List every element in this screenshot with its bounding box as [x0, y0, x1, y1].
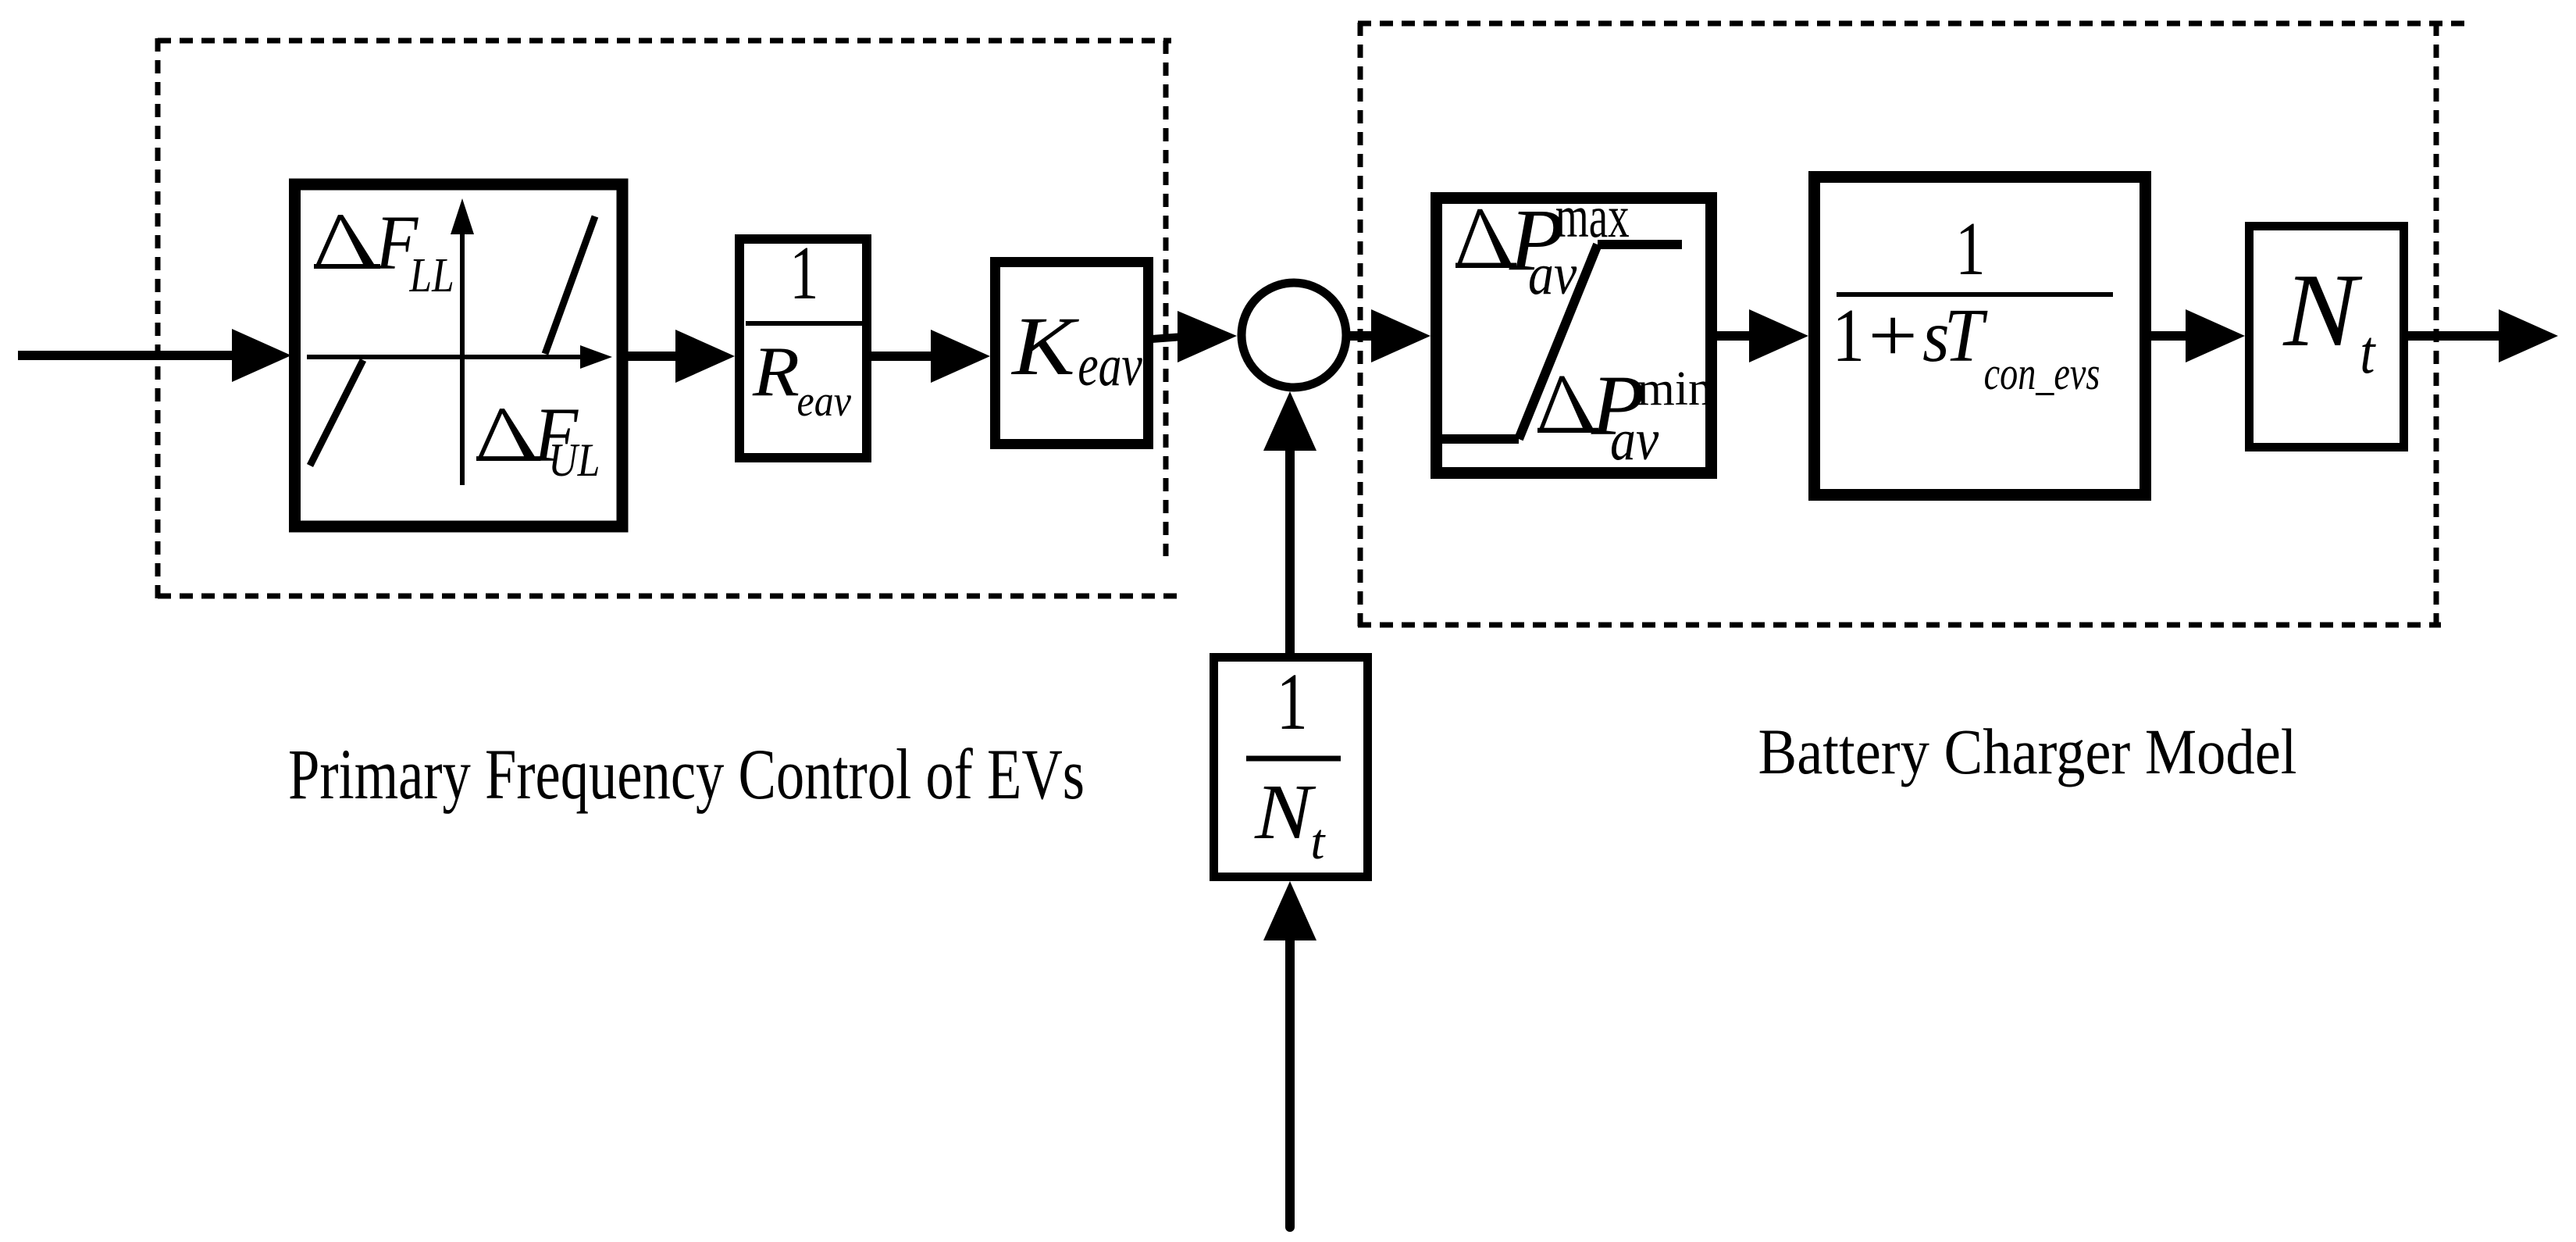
- svg-text:Battery Charger Model: Battery Charger Model: [1758, 716, 2297, 787]
- summing junction circle: [1242, 283, 1346, 387]
- svg-text:av: av: [1610, 408, 1659, 473]
- svg-text:eav: eav: [1078, 334, 1142, 398]
- svg-text:eav: eav: [797, 377, 852, 425]
- dashed box: Primary Frequency Control of EVs: [158, 38, 1180, 598]
- TF fraction bar: [1837, 292, 2113, 297]
- wire: input arrow into deadband block: [18, 329, 291, 382]
- block: Nt: [2250, 227, 2404, 448]
- svg-text:t: t: [1310, 814, 1326, 870]
- deadband vertical axis: [451, 198, 474, 485]
- block: transfer function 1/(1+sTcon_evs): [1815, 177, 2146, 495]
- block: saturation dPav: [1437, 198, 1712, 473]
- deadband curve lower-left segment: [310, 360, 363, 466]
- wire: 1/Nt up to summing junction: [1263, 391, 1317, 653]
- svg-text:T: T: [1944, 294, 1988, 377]
- svg-text:av: av: [1528, 242, 1577, 307]
- wire: transfer function to Nt: [2151, 309, 2245, 362]
- 1/Nt fraction bar: [1246, 756, 1341, 762]
- saturation curve: [1438, 244, 1682, 439]
- svg-text:1: 1: [1277, 657, 1308, 747]
- block: 1/Reav: [739, 239, 867, 458]
- svg-text:max: max: [1555, 184, 1630, 250]
- wire: deadband to 1/Reav: [625, 330, 735, 383]
- svg-text:t: t: [2360, 319, 2376, 387]
- wire: bottom input up into 1/Nt: [1263, 881, 1317, 1227]
- svg-text:LL: LL: [409, 249, 454, 303]
- 1/Reav fraction bar: [746, 321, 865, 326]
- block: Keav: [996, 262, 1149, 444]
- wire: 1/Reav to Keav: [871, 330, 990, 383]
- svg-text:+: +: [1868, 293, 1918, 377]
- svg-text:R: R: [752, 333, 800, 411]
- svg-text:1: 1: [1955, 207, 1986, 291]
- wire: Keav to summing junction: [1152, 311, 1237, 362]
- wire: summing junction to saturation block: [1349, 309, 1431, 362]
- svg-text:1: 1: [1833, 294, 1865, 378]
- wire: output arrow from Nt: [2408, 309, 2558, 362]
- svg-text:1: 1: [789, 231, 818, 316]
- deadband horizontal axis: [307, 345, 612, 369]
- svg-text:N: N: [1254, 768, 1317, 855]
- label dPav max: [1455, 209, 1516, 268]
- wire: saturation to transfer function: [1717, 309, 1808, 362]
- svg-text:N: N: [2282, 252, 2363, 368]
- label dPav min: [1537, 377, 1598, 433]
- dashed box: Battery Charger Model: [1358, 23, 2470, 630]
- svg-text:K: K: [1010, 299, 1080, 392]
- svg-text:Primary Frequency Control of E: Primary Frequency Control of EVs: [288, 734, 1085, 814]
- deadband curve upper-right segment: [545, 216, 595, 354]
- label dF_UL: [476, 409, 540, 461]
- svg-text:UL: UL: [548, 435, 600, 487]
- label dF_LL: [314, 215, 380, 269]
- svg-text:con_evs: con_evs: [1984, 347, 2100, 399]
- block: deadband (limiter): [295, 184, 623, 526]
- block: 1/Nt: [1214, 658, 1368, 877]
